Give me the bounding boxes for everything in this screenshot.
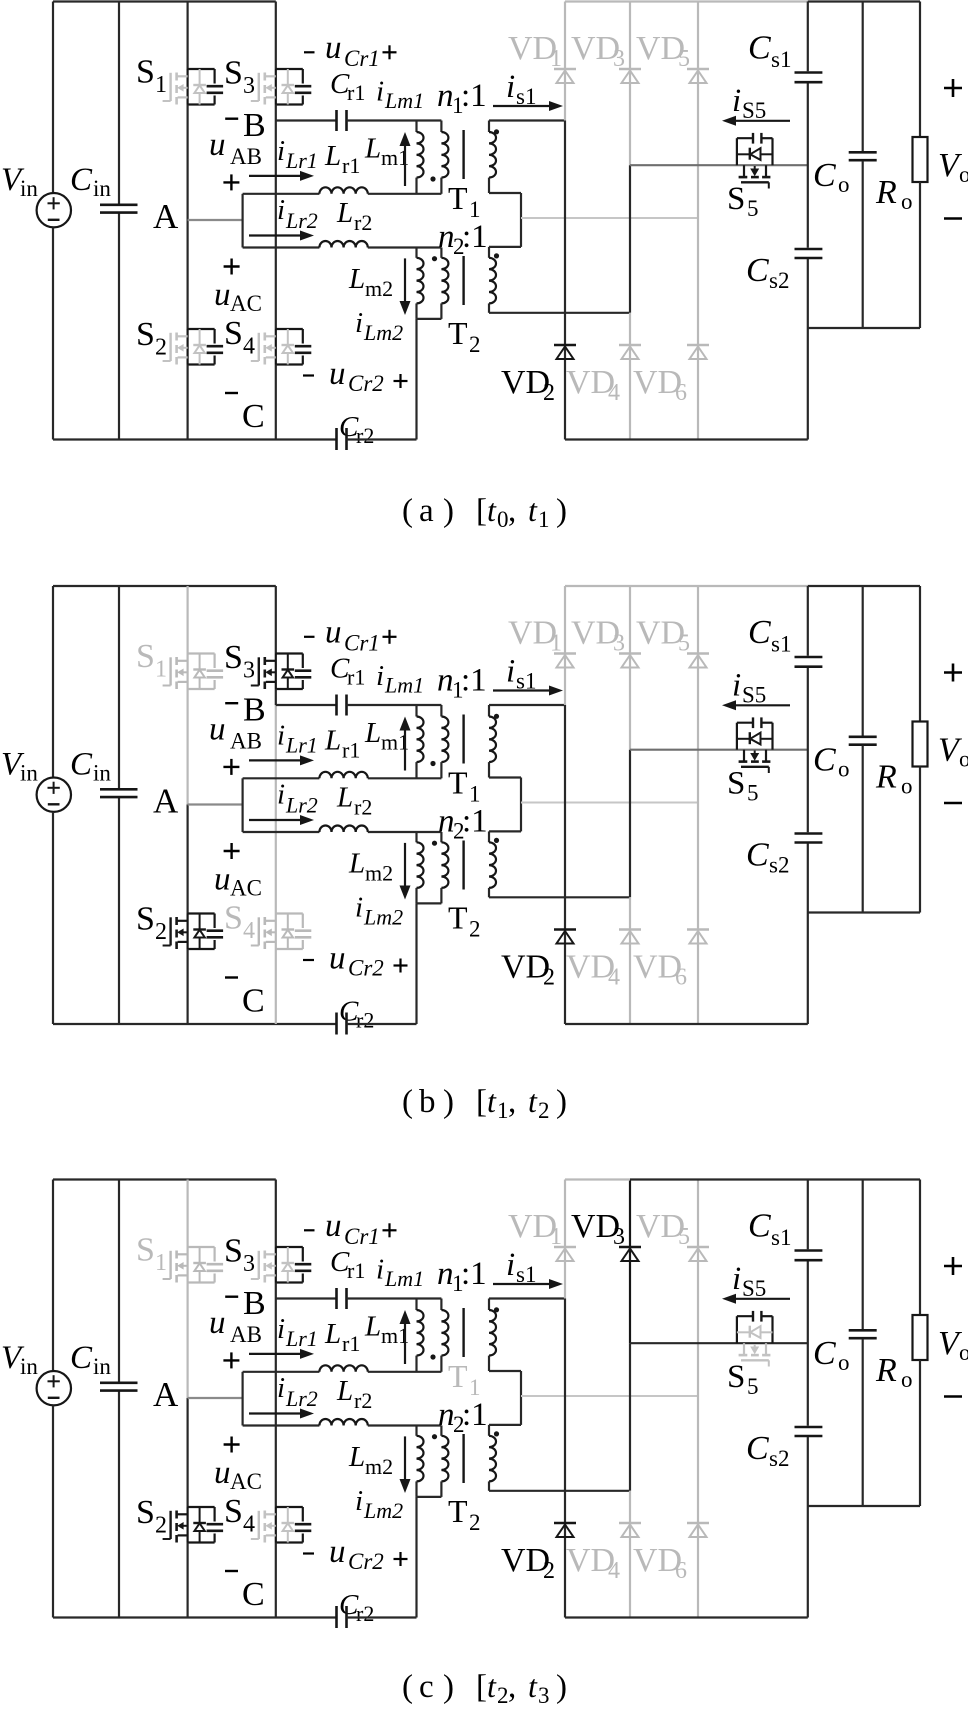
wire: secondary midpoint (inactive) [521,217,698,219]
svg-text:4: 4 [608,1558,620,1584]
label VD1 [508,615,562,657]
wire: rectifier leg2 lower (VD4 branch) [629,313,631,440]
svg-text:1: 1 [550,1224,562,1250]
wire: rectifier leg1 lower (VD2 branch) [564,705,566,1024]
resistor Ro [913,2,928,329]
capacitor Cr1 [337,110,347,131]
svg-text:t: t [487,1668,497,1704]
label Cr1 [330,653,365,690]
label Vo [938,732,968,772]
transformer T1 primary [441,1299,448,1372]
diode VD5 [687,654,709,668]
svg-text:L: L [348,848,365,880]
svg-text:u: u [325,1208,342,1244]
svg-text:AB: AB [230,1322,262,1347]
label Vo [938,1325,968,1365]
svg-text:1: 1 [497,1098,509,1123]
wire: output bottom rail [808,911,920,913]
svg-text:i: i [277,720,285,752]
svg-text:S: S [136,316,155,353]
label - output [944,1395,962,1398]
label Lr2 [336,197,372,235]
node C [225,978,265,1020]
svg-text:r2: r2 [354,1388,372,1413]
wire: T1 secondary top to rectifier [489,119,565,121]
label Lr1 [324,725,360,763]
label iLr2 [277,1372,318,1411]
label is1 [506,1247,536,1287]
svg-text:T: T [448,315,468,351]
inductor Lm1 [417,705,424,778]
svg-text:1: 1 [155,1250,167,1276]
wire: input left leg upper [52,2,54,194]
label Cs1 [748,614,791,656]
label Cs2 [746,252,789,293]
svg-text:in: in [93,176,111,201]
svg-text:5: 5 [747,1374,759,1399]
label Cr2 [339,411,374,448]
svg-text:C: C [813,157,836,194]
svg-text:1: 1 [155,72,167,98]
T2 secondary dot [494,838,499,843]
svg-text:L: L [348,263,365,295]
label iLr1 [277,135,318,173]
svg-text:s2: s2 [769,853,789,878]
svg-text:): ) [443,1084,454,1120]
svg-text:u: u [214,277,231,313]
current arrow iS5 (left) [732,704,790,706]
label iLm2 [355,1485,403,1523]
label iLm2 [355,307,403,345]
diode VD1 [554,654,576,668]
transistor S2 [163,914,224,950]
wire: input left leg lower [52,228,54,440]
svg-text:2: 2 [543,380,555,406]
svg-text:Cr1: Cr1 [344,1224,380,1249]
label Vin [1,747,38,786]
svg-text:t: t [528,1668,538,1704]
wire: T2 secondary bottom to rectifier [489,312,630,314]
svg-text:r1: r1 [347,665,365,690]
wire: node A split edge [242,194,244,248]
wire: node A split edge [242,778,244,832]
diode VD5 [687,1247,709,1261]
label S1 [136,1232,167,1277]
wire: bridge leg2 upper (above S3) [275,2,277,70]
svg-text:AC: AC [230,1469,262,1494]
label + output [944,664,962,682]
wire: Cs midpoint leg [807,84,809,248]
wire: rectifier bottom rail [565,1023,808,1025]
svg-text:C: C [748,1208,771,1245]
diode VD1 [554,69,576,83]
label Cin [70,1340,111,1379]
svg-text:b: b [419,1084,436,1120]
svg-text:Lm2: Lm2 [363,905,403,930]
wire: output bottom rail [808,327,920,329]
label uAC [214,1437,262,1495]
label VD1 [508,1208,562,1250]
svg-text:i: i [506,69,515,105]
T2 primary dot [432,841,437,846]
svg-text:u: u [325,615,342,651]
svg-text:AB: AB [230,729,262,754]
capacitor Cs1 [795,2,823,83]
label n2:1 [438,804,488,844]
capacitor Cin [100,1180,138,1618]
label Cr2 [339,996,374,1033]
capacitor Cr2 [337,1606,417,1628]
inductor Lr1 [243,1365,442,1372]
label Cs2 [746,1430,789,1471]
svg-text:i: i [355,892,363,924]
svg-text:L: L [336,782,353,814]
transformer T2 secondary [489,1425,496,1491]
label uCr2 [303,356,408,396]
svg-text:): ) [556,493,567,529]
svg-text:u: u [325,30,342,66]
svg-text:S: S [136,54,155,91]
wire: bridge leg1 lower (below S2) [187,365,189,440]
current arrow iLr2 [249,819,304,821]
label Lr2 [336,782,372,820]
transistor S3 [251,654,311,690]
svg-text:o: o [838,172,850,197]
svg-text:i: i [355,1485,363,1517]
svg-text:): ) [443,1669,454,1705]
wire: rectifier leg2 upper (VD3 branch) [629,586,631,750]
source Vin [37,193,71,227]
current arrow iLm1 (up) [404,144,406,186]
transformer T1 primary [441,121,448,194]
label S3 [224,1233,255,1278]
caption (a) [402,492,567,532]
node C [225,393,265,435]
svg-text:): ) [443,493,454,529]
wire: bottom rail left [53,1023,337,1025]
svg-text:in: in [93,761,111,786]
svg-text:C: C [70,1340,93,1376]
label Cr2 [339,1589,374,1626]
svg-text:S: S [727,181,745,217]
svg-text:o: o [959,747,968,772]
svg-text:i: i [277,1372,285,1404]
label n1:1 [437,1256,487,1296]
svg-text:in: in [93,1354,111,1379]
svg-text::1: :1 [461,663,487,699]
label uCr1 [304,30,397,71]
svg-text:A: A [153,782,179,821]
svg-text:5: 5 [747,196,759,221]
label Cin [70,162,111,201]
svg-text:R: R [875,1352,897,1389]
diode VD3 [619,1247,641,1261]
capacitor Co [849,586,877,913]
diode VD6 [687,345,709,359]
label Vin [1,162,38,201]
svg-text:S: S [224,315,243,352]
wire: input left leg upper [52,586,54,778]
caption (b) [402,1083,567,1123]
wire: rectifier leg2 middle [629,165,631,313]
svg-text:u: u [209,127,226,163]
svg-text:S: S [136,1494,155,1531]
wire: secondary midpoint (inactive) [521,802,698,804]
svg-text:): ) [556,1669,567,1705]
svg-text:T: T [448,180,468,216]
svg-text:2: 2 [155,335,167,361]
label T2 [448,900,481,942]
wire: bridge leg1 node A to S2 [187,1398,189,1507]
svg-text:t: t [487,492,497,528]
svg-text:B: B [243,107,266,144]
label S3 [224,639,255,684]
wire: T1 secondary top to rectifier [489,1297,565,1299]
svg-text:Lm1: Lm1 [384,88,424,113]
label Lm1 [364,717,409,755]
label Cs1 [748,30,791,72]
svg-text:S: S [224,1493,243,1530]
transistor S1 [163,69,224,105]
node C [225,1571,265,1613]
svg-text:2: 2 [543,965,555,991]
svg-text:2: 2 [469,332,481,357]
svg-text:L: L [324,725,341,757]
label Cin [70,747,111,786]
label is1 [506,69,536,109]
T2 primary dot [432,1434,437,1439]
T1 secondary dot [494,1307,499,1312]
svg-text:S: S [136,638,155,675]
node B [225,107,265,144]
svg-text:1: 1 [550,46,562,72]
wire: bridge leg1 middle (S1 to node A) [187,1283,189,1399]
svg-text:L: L [364,717,381,749]
transistor S4 [251,914,311,950]
wire: Cr2 loop right leg [415,1497,417,1618]
current arrow iLr1 [249,759,304,761]
node B [225,692,265,729]
svg-text:t: t [528,492,538,528]
wire: bridge leg1 upper (above S1) [187,1180,189,1248]
inductor Lr2 [243,826,442,833]
label n2:1 [438,1397,488,1437]
svg-text:[: [ [476,1669,487,1705]
current arrow is1 [493,1283,553,1285]
caption (c) [402,1668,567,1708]
label Ro [875,759,913,799]
svg-text:in: in [20,761,38,786]
svg-text:t: t [487,1083,497,1119]
svg-text:r1: r1 [342,153,360,178]
node A [153,197,179,236]
label Lm1 [364,133,409,171]
svg-text:S: S [136,1232,155,1269]
diode VD4 [619,930,641,944]
current arrow iLm2 (down) [404,843,406,888]
wire: input left leg upper [52,1180,54,1372]
current arrow is1 [493,689,553,691]
svg-text:AC: AC [230,291,262,316]
svg-text:4: 4 [608,380,620,406]
label n2:1 [438,219,488,259]
node A [153,1375,179,1414]
svg-text:3: 3 [613,1224,625,1250]
wire: bridge leg1 node A to S2 [187,220,189,329]
wire: bridge leg2 S3 to node B [275,689,277,705]
svg-text:B: B [243,692,266,729]
transistor S1 [163,654,224,690]
svg-text:3: 3 [243,658,255,684]
transistor S3 [251,69,311,105]
svg-text:o: o [901,774,913,799]
svg-text:Cr2: Cr2 [348,956,384,981]
capacitor Cs1 [795,1180,823,1261]
svg-text:Cr1: Cr1 [344,46,380,71]
label - output [944,802,962,805]
wire: Cr1 to T1 top [347,119,442,121]
T2 secondary dot [494,253,499,258]
svg-text:c: c [419,1669,434,1705]
label T1 [448,765,481,807]
svg-text:3: 3 [538,1683,550,1708]
current arrow iLr1 [249,175,304,177]
svg-text:1: 1 [550,631,562,657]
wire: S5 branch (rectifier leg2 to Cs midpoint) [630,1342,808,1344]
diode VD1 [554,1247,576,1261]
wire: rectifier leg2 upper (VD3 branch) [629,2,631,166]
wire: bridge leg2 node B to S4 [275,1299,277,1508]
current arrow iLm1 (up) [404,1322,406,1364]
inductor Lm2 [417,248,424,319]
wire: output top rail [808,0,920,2]
label T2 [448,1493,481,1535]
label S1 [136,54,167,99]
svg-text:C: C [70,162,93,198]
label n1:1 [437,663,487,703]
transformer T2 primary [441,832,448,903]
svg-text:o: o [959,162,968,187]
svg-text:i: i [277,779,285,811]
label Lm2 [348,848,393,886]
label is1 [506,654,536,694]
svg-text::1: :1 [461,1256,487,1292]
label VD5 [636,615,690,657]
wire: T2 secondary bottom to rectifier [489,1490,630,1492]
transistor S4 [251,329,311,365]
svg-text:s2: s2 [769,268,789,293]
resistor Ro [913,586,928,913]
label iLm1 [376,660,424,698]
svg-text:r2: r2 [354,210,372,235]
wire: bridge leg1 node A to S2 [187,805,189,914]
svg-text:Lr1: Lr1 [285,733,318,758]
T1 primary dot [430,761,435,766]
label Lr1 [324,1318,360,1356]
diode VD4 [619,1523,641,1537]
svg-text:C: C [746,1430,769,1467]
svg-text:A: A [153,1375,179,1414]
wire: rectifier leg1 upper (VD1 branch) [564,2,566,121]
svg-text:r2: r2 [356,423,374,448]
svg-text:4: 4 [243,918,255,944]
label S3 [224,55,255,100]
svg-text:r1: r1 [342,738,360,763]
svg-text:,: , [508,1084,516,1120]
label Cr1 [330,68,365,105]
label uAC [214,843,262,901]
label VD3 [571,1208,625,1250]
label Co [813,157,850,197]
svg-text:Cr2: Cr2 [348,371,384,396]
wire: output top rail [808,585,920,587]
current arrow iLr2 [249,1412,304,1414]
svg-text:o: o [901,1367,913,1392]
T2 primary dot [432,256,437,261]
label T2 [448,315,481,357]
svg-text:(: ( [402,493,413,529]
label Ro [875,174,913,214]
svg-text:S: S [136,901,155,938]
wire: T1 sec bottom / T2 sec top link [489,1371,521,1425]
wire: input top rail (A-B legs) [53,0,276,2]
current arrow iLm2 (down) [404,258,406,303]
wire: S5 branch (rectifier leg2 to Cs midpoint) [630,749,808,751]
wire: rectifier leg3 (VD5/VD6 branch) [697,586,699,1024]
diode VD6 [687,930,709,944]
svg-text:A: A [153,197,179,236]
svg-text:T: T [448,1358,468,1394]
label VD4 [566,1542,620,1584]
T1 core [462,715,464,764]
inductor Lm2 [417,1426,424,1497]
inductor Lr2 [243,241,442,248]
svg-text:B: B [243,1285,266,1322]
label Cs1 [748,1208,791,1250]
wire: node A stub [188,803,243,805]
svg-text:2: 2 [543,1558,555,1584]
wire: rectifier leg3 (VD5/VD6 branch) [697,2,699,440]
label n1:1 [437,78,487,118]
wire: node B to Cr1 [276,119,337,121]
svg-text:2: 2 [497,1683,509,1708]
label uAC [214,259,262,317]
svg-text:S: S [224,900,243,937]
transistor S5 [737,1311,773,1367]
diode VD5 [687,69,709,83]
T1 primary dot [430,1354,435,1359]
wire: T1 sec bottom / T2 sec top link [489,193,521,247]
wire: Cr2 loop right leg [415,319,417,440]
svg-text:i: i [277,1313,285,1345]
svg-text:o: o [838,757,850,782]
svg-text:s1: s1 [771,632,791,657]
capacitor Cs2 [795,834,823,1025]
svg-text:3: 3 [243,73,255,99]
label uCr1 [304,615,397,656]
label VD6 [633,949,687,991]
svg-text:S5: S5 [742,1276,766,1301]
svg-text:C: C [242,983,265,1020]
svg-text:C: C [748,614,771,651]
capacitor Co [849,2,877,329]
transistor S4 [251,1507,311,1543]
svg-text:m2: m2 [365,1454,393,1479]
svg-text:r1: r1 [347,1258,365,1283]
svg-text:o: o [838,1350,850,1375]
diode VD3 [619,69,641,83]
svg-text:u: u [329,356,346,392]
